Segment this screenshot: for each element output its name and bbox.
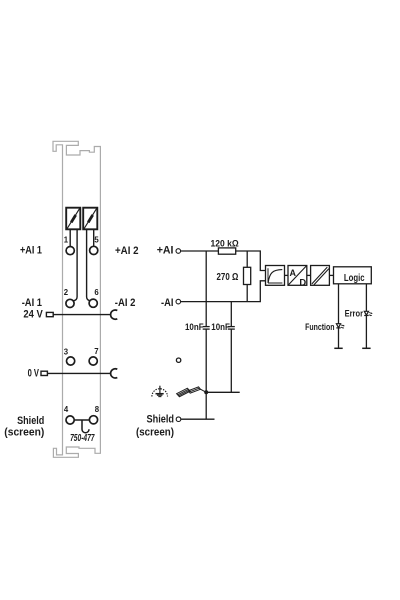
logic block — [334, 267, 372, 284]
0V plug rectangle — [41, 371, 47, 375]
wire terminal 4 to terminal 8 — [74, 419, 89, 421]
error LED D1 — [364, 311, 373, 316]
0V power contact socket arc — [111, 369, 118, 378]
24V power contact socket arc — [111, 310, 118, 319]
svg-text:1: 1 — [64, 235, 69, 244]
svg-text:-AI: -AI — [161, 297, 174, 309]
terminal 7 — [89, 357, 97, 365]
svg-text:-AI 2: -AI 2 — [115, 297, 136, 309]
wire shield — [181, 418, 215, 420]
svg-text:3: 3 — [64, 347, 69, 356]
wire isolation to logic — [329, 274, 333, 276]
svg-text:Shield: Shield — [147, 413, 175, 425]
24V plug rectangle — [46, 312, 53, 316]
wire junction down to capacitor C1 — [205, 251, 207, 327]
0V wire — [47, 372, 110, 374]
svg-text:24 V: 24 V — [23, 308, 43, 320]
svg-text:(screen): (screen) — [136, 427, 174, 439]
svg-text:Error: Error — [345, 308, 364, 318]
capacitor C1 10nF — [203, 327, 210, 330]
svg-text:7: 7 — [94, 347, 98, 356]
svg-text:+AI 1: +AI 1 — [20, 245, 42, 257]
wire logic to error LED — [365, 284, 367, 349]
wire logic to function LED — [338, 284, 340, 349]
shield clamp symbol — [177, 387, 207, 397]
resistor 120 kOhm — [218, 248, 235, 254]
svg-text:+AI: +AI — [157, 245, 174, 257]
terminal 5 — [90, 246, 98, 254]
wire +AI to resistor R1 — [181, 250, 219, 252]
status LED box channel 1 — [66, 208, 80, 230]
galvanic isolation block U3 — [311, 266, 330, 286]
svg-text:10nF: 10nF — [211, 322, 230, 332]
node -AI open circle — [176, 299, 181, 304]
function LED D2 — [336, 324, 345, 329]
terminal 4 — [66, 416, 74, 424]
svg-text:4: 4 — [64, 405, 69, 414]
svg-text:Function: Function — [305, 322, 335, 332]
functional earth symbol — [152, 386, 168, 397]
error LED ground bar — [362, 347, 370, 349]
node +AI open circle — [176, 249, 181, 254]
terminal 3 — [67, 357, 75, 365]
wire junction down to resistor R2 — [246, 251, 248, 267]
wire box1 to terminal 2 — [74, 229, 78, 301]
module outline 750-477 body — [53, 141, 100, 457]
terminal 8 — [89, 416, 97, 424]
A/D converter block U2 — [288, 266, 307, 289]
resistor 270 Ohm — [244, 267, 251, 284]
wire capacitor C2 to ground bus — [230, 329, 232, 392]
svg-text:8: 8 — [95, 405, 100, 414]
function LED ground bar — [334, 347, 342, 349]
wire resistor R2 to -AI line — [246, 285, 248, 302]
svg-text:D: D — [299, 278, 306, 289]
svg-text:5: 5 — [94, 235, 99, 244]
svg-text:120 kΩ: 120 kΩ — [211, 238, 240, 249]
status LED box channel 2 — [83, 208, 97, 230]
junction dot ground bus — [204, 390, 208, 394]
wire box2 to terminal 6 — [87, 229, 91, 301]
svg-text:Shield: Shield — [17, 415, 44, 427]
svg-text:750-477: 750-477 — [70, 433, 95, 444]
svg-text:6: 6 — [94, 288, 99, 297]
wire filter to A/D — [285, 274, 289, 276]
ground bus wire — [206, 391, 240, 393]
shield hook on terminal 4-8 bar — [82, 420, 89, 433]
terminal 2 — [66, 299, 74, 307]
wire capacitor C1 to ground bus — [205, 329, 207, 392]
svg-text:0 V: 0 V — [28, 367, 40, 379]
terminal 6 — [89, 299, 97, 307]
wire ground bus down to shield — [205, 392, 207, 419]
svg-text:+AI 2: +AI 2 — [115, 245, 139, 257]
svg-text:Logic: Logic — [344, 273, 365, 284]
terminal 1 — [66, 247, 74, 255]
wire box2 to terminal 5 — [93, 229, 95, 246]
svg-text:A: A — [290, 268, 297, 279]
capacitor C2 10nF — [228, 327, 235, 330]
wire A/D to isolation — [307, 274, 311, 276]
wire -AI to filter — [181, 281, 266, 302]
filter block U1 — [266, 266, 285, 286]
svg-text:2: 2 — [64, 288, 69, 297]
floating node circle — [176, 358, 180, 362]
24V wire — [53, 314, 111, 316]
node shield open circle — [176, 417, 181, 422]
wire resistor R1 to filter — [236, 251, 266, 271]
wire box1 to terminal 1 — [69, 229, 71, 246]
svg-text:(screen): (screen) — [4, 426, 44, 438]
svg-text:270 Ω: 270 Ω — [217, 272, 239, 283]
svg-text:10nF: 10nF — [185, 322, 204, 332]
wire -AI junction down to capacitor C2 — [230, 302, 232, 327]
